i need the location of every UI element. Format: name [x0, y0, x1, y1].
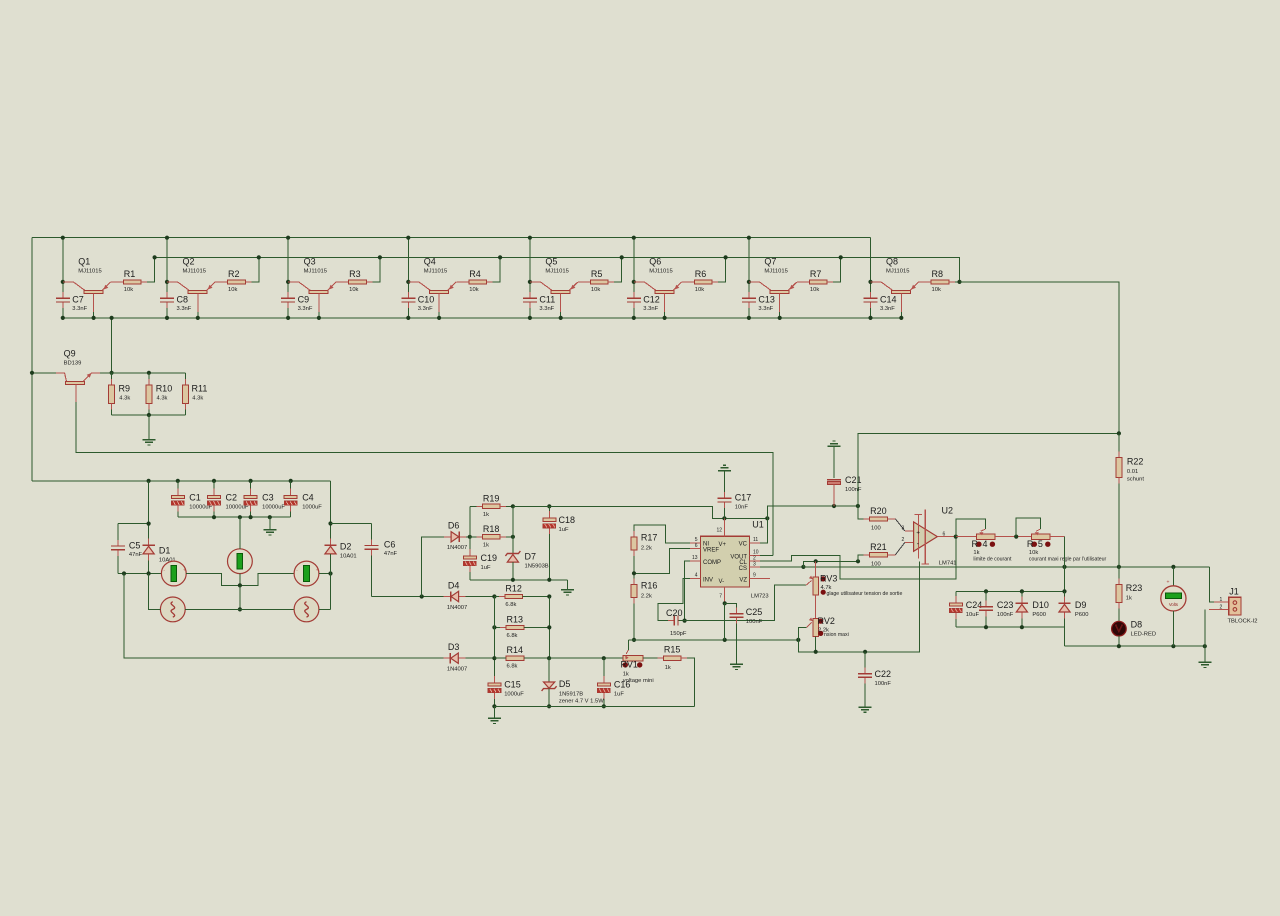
- svg-text:47nF: 47nF: [384, 551, 398, 557]
- svg-text:P600: P600: [1032, 612, 1046, 618]
- svg-text:1uF: 1uF: [614, 691, 624, 697]
- diode D4: [459, 596, 495, 598]
- resistor R10: [148, 379, 150, 385]
- transistor Q6: [634, 281, 645, 283]
- capacitor C13: [748, 292, 750, 298]
- wire INV loop: [658, 579, 690, 621]
- svg-text:C9: C9: [298, 295, 310, 305]
- svg-text:12: 12: [716, 528, 722, 534]
- svg-text:10k: 10k: [695, 287, 704, 293]
- pin 2 CL: [750, 560, 761, 562]
- svg-text:6.8k: 6.8k: [505, 602, 516, 608]
- resistor R2: [222, 281, 228, 283]
- wire stage node 3 vertical: [287, 238, 289, 297]
- svg-text:3.3nF: 3.3nF: [298, 306, 313, 312]
- pin 10 VOUT: [750, 554, 761, 556]
- zener diode D7: [512, 506, 514, 553]
- svg-text:6.8k: 6.8k: [507, 664, 518, 670]
- wire R12-R14 right vertical: [548, 597, 550, 659]
- svg-text:MJ11015: MJ11015: [304, 268, 327, 274]
- wire T2 right to D2 node: [319, 608, 331, 610]
- svg-text:voltage mini: voltage mini: [623, 678, 654, 684]
- svg-text:C10: C10: [418, 295, 435, 305]
- transistor Q2: [167, 281, 178, 283]
- svg-text:R8: R8: [932, 269, 944, 279]
- svg-text:C17: C17: [735, 492, 752, 502]
- svg-text:C4: C4: [302, 493, 314, 503]
- svg-text:10k: 10k: [810, 287, 819, 293]
- resistor R20: [864, 518, 870, 520]
- resistor R7: [803, 281, 809, 283]
- ground below R10: [142, 439, 155, 441]
- svg-text:10uF: 10uF: [966, 612, 980, 618]
- potentiometer RV4: [976, 534, 995, 540]
- wire stage node 7 vertical: [748, 238, 750, 297]
- transistor Q8: [871, 281, 882, 283]
- resistor R21: [864, 554, 870, 556]
- svg-text:R13: R13: [507, 614, 524, 624]
- capacitor C4: [290, 481, 292, 496]
- wire V+ node to C21 node: [767, 506, 858, 518]
- capacitor C20: [668, 620, 674, 622]
- resistor R11: [184, 379, 186, 385]
- svg-text:nsion maxi: nsion maxi: [824, 632, 849, 638]
- svg-text:zener 4.7 V 1.5W: zener 4.7 V 1.5W: [559, 699, 604, 705]
- resistor R12: [494, 596, 505, 598]
- svg-text:3.3nF: 3.3nF: [177, 306, 192, 312]
- svg-text:R17: R17: [641, 532, 658, 542]
- resistor R5: [584, 281, 590, 283]
- wire RV4 to RV5: [995, 536, 1032, 538]
- capacitor C19: [469, 537, 471, 556]
- wire stage node 2 vertical: [166, 238, 168, 297]
- svg-text:MJ11015: MJ11015: [649, 268, 672, 274]
- svg-text:2.2k: 2.2k: [641, 593, 652, 599]
- wire base drive bus: [155, 257, 960, 282]
- svg-text:1N5903B: 1N5903B: [525, 563, 549, 569]
- svg-text:Q3: Q3: [304, 256, 316, 266]
- svg-text:C12: C12: [643, 295, 660, 305]
- wire Q9 base feed: [32, 372, 56, 374]
- svg-text:VREF: VREF: [703, 548, 719, 554]
- svg-text:limite de courant: limite de courant: [973, 557, 1012, 563]
- svg-text:1uF: 1uF: [481, 565, 491, 571]
- wire M3 to D2 node: [319, 573, 331, 575]
- ground below C25: [730, 663, 743, 665]
- wire C20 to RV3 wiper: [678, 585, 806, 620]
- diode D1: [148, 481, 150, 545]
- wire T1 left to main node: [149, 574, 161, 610]
- svg-text:R3: R3: [349, 269, 361, 279]
- AC voltmeter M2: [228, 549, 253, 574]
- pin 11 VC: [750, 542, 761, 544]
- pin 3 CS: [750, 566, 761, 568]
- wire ground stub: [493, 706, 495, 717]
- resistor R23: [1118, 567, 1120, 585]
- svg-text:Q5: Q5: [545, 256, 557, 266]
- wire M2 top to filter bus: [239, 517, 241, 549]
- svg-text:C13: C13: [758, 295, 775, 305]
- svg-text:C23: C23: [997, 600, 1014, 610]
- wire stage node 1 vertical: [62, 238, 64, 297]
- svg-text:courant maxi regle par l'utili: courant maxi regle par l'utilisateur: [1029, 557, 1107, 563]
- svg-text:LM723: LM723: [751, 593, 769, 599]
- wire M1 to M3 via M2 bottom: [186, 574, 294, 586]
- resistor R6: [688, 281, 694, 283]
- transistor Q4: [408, 281, 419, 283]
- op-amp U1 LM723 body: [701, 536, 750, 587]
- wire CL to op-amp output: [760, 537, 956, 579]
- svg-text:R7: R7: [810, 269, 822, 279]
- svg-text:4: 4: [983, 539, 988, 549]
- resistor R15: [643, 657, 664, 659]
- svg-text:3.3nF: 3.3nF: [880, 306, 895, 312]
- wire RV2 bottom rail: [815, 636, 817, 652]
- svg-text:V-: V-: [719, 579, 725, 585]
- svg-text:R1: R1: [124, 269, 136, 279]
- svg-text:RV3: RV3: [820, 574, 837, 584]
- wire top supply rail: [32, 237, 871, 239]
- svg-text:C20: C20: [666, 608, 683, 618]
- svg-text:VZ: VZ: [739, 578, 747, 584]
- wire output bottom rail: [1065, 645, 1205, 647]
- capacitor C16: [603, 658, 605, 683]
- resistor R19: [470, 505, 483, 507]
- svg-text:4: 4: [695, 573, 698, 579]
- svg-text:R2: R2: [228, 269, 240, 279]
- ground below C15: [488, 717, 501, 719]
- wire R9-R11 bottom bus: [111, 404, 113, 415]
- svg-text:R9: R9: [119, 383, 131, 393]
- svg-text:LM741: LM741: [939, 560, 957, 566]
- svg-text:Q9: Q9: [64, 349, 76, 359]
- transistor Q1: [63, 281, 74, 283]
- svg-text:1uF: 1uF: [559, 527, 569, 533]
- svg-text:C14: C14: [880, 295, 897, 305]
- svg-text:100nF: 100nF: [746, 619, 763, 625]
- svg-text:0.01: 0.01: [1127, 469, 1138, 475]
- svg-text:U1: U1: [752, 520, 764, 530]
- svg-text:1000uF: 1000uF: [504, 691, 524, 697]
- potentiometer RV5: [1032, 534, 1051, 540]
- wire transistor-row bottom rail: [63, 317, 901, 319]
- wire R14 to RV1: [549, 657, 623, 659]
- svg-text:R18: R18: [483, 524, 500, 534]
- capacitor C25: [725, 603, 737, 611]
- svg-text:R: R: [1027, 539, 1034, 549]
- svg-text:D4: D4: [448, 580, 460, 590]
- svg-text:10k: 10k: [469, 287, 478, 293]
- svg-text:3.3nF: 3.3nF: [72, 306, 87, 312]
- svg-text:D1: D1: [159, 546, 171, 556]
- svg-text:C7: C7: [72, 295, 84, 305]
- svg-text:R5: R5: [591, 269, 603, 279]
- svg-text:VC: VC: [739, 542, 748, 548]
- wire reference line to LM723: [513, 506, 767, 518]
- resistor R9: [111, 379, 113, 385]
- ground below C22: [859, 706, 872, 708]
- svg-text:5: 5: [695, 537, 698, 543]
- svg-text:1000uF: 1000uF: [302, 505, 322, 511]
- svg-text:TBLOCK-I2: TBLOCK-I2: [1228, 619, 1258, 625]
- svg-text:3: 3: [902, 526, 905, 532]
- svg-text:D2: D2: [340, 542, 352, 552]
- svg-text:4.3k: 4.3k: [119, 395, 130, 401]
- wire U2 output: [937, 536, 956, 538]
- svg-text:+: +: [316, 568, 319, 573]
- wire R7 riser to base bus: [827, 257, 841, 282]
- svg-text:R21: R21: [870, 542, 887, 552]
- wire VC riser: [760, 518, 767, 543]
- svg-text:100nF: 100nF: [845, 487, 862, 493]
- svg-text:R22: R22: [1127, 457, 1144, 467]
- svg-text:3: 3: [753, 562, 756, 568]
- svg-text:MJ11015: MJ11015: [183, 268, 206, 274]
- capacitor C23: [985, 591, 987, 604]
- capacitor C7: [62, 292, 64, 298]
- svg-text:C11: C11: [539, 295, 555, 305]
- svg-text:R12: R12: [505, 584, 522, 594]
- svg-text:C24: C24: [966, 600, 983, 610]
- wire R9-R11 top bus: [100, 372, 185, 374]
- wire current sense line: [858, 433, 1119, 519]
- wire R8 output to sense line: [949, 281, 960, 283]
- transistor Q5: [530, 281, 541, 283]
- diode D6: [459, 536, 470, 538]
- svg-text:10k: 10k: [349, 287, 358, 293]
- pin 5 NI: [690, 542, 701, 544]
- svg-text:MJ11015: MJ11015: [78, 268, 101, 274]
- wire Q9 collector to VOUT rail: [76, 402, 773, 555]
- svg-text:C8: C8: [177, 295, 189, 305]
- svg-text:1k: 1k: [665, 665, 671, 671]
- wire R1 riser to base bus: [141, 257, 155, 282]
- diode D9: [1064, 591, 1066, 603]
- capacitor C14: [870, 292, 872, 298]
- svg-text:J1: J1: [1229, 587, 1239, 597]
- wire R2 riser to base bus: [245, 257, 258, 282]
- svg-text:V+: V+: [719, 542, 727, 548]
- wire left vertical rail: [31, 238, 33, 481]
- svg-text:RV2: RV2: [818, 616, 835, 626]
- capacitor C10: [407, 292, 409, 298]
- svg-text:R14: R14: [507, 645, 524, 655]
- svg-text:10k: 10k: [228, 287, 237, 293]
- svg-text:C2: C2: [226, 493, 238, 503]
- wire R12 left vertical to C15: [493, 597, 495, 683]
- svg-text:10000uF: 10000uF: [262, 505, 285, 511]
- svg-text:Q7: Q7: [764, 256, 776, 266]
- ground below C18 bus: [561, 589, 574, 591]
- wire CS line: [760, 566, 803, 568]
- svg-text:COMP: COMP: [703, 560, 721, 566]
- capacitor C5: [117, 524, 119, 544]
- svg-text:D7: D7: [525, 551, 537, 561]
- wire D7/C18/C19 ground bus: [470, 579, 568, 581]
- svg-text:D10: D10: [1032, 600, 1049, 610]
- potentiometer RV3: [815, 561, 817, 577]
- svg-text:C18: C18: [559, 515, 576, 525]
- svg-text:2: 2: [902, 537, 905, 543]
- zener diode D5: [548, 658, 550, 682]
- svg-text:Q1: Q1: [78, 256, 90, 266]
- resistor R22 shunt: [1118, 433, 1120, 457]
- wire T1 to T2: [185, 608, 294, 610]
- transistor Q3: [288, 281, 299, 283]
- svg-text:3.3nF: 3.3nF: [758, 306, 773, 312]
- svg-text:47nF: 47nF: [129, 552, 143, 558]
- capacitor C21: [828, 445, 841, 447]
- wire stage node 6 vertical: [633, 238, 635, 297]
- svg-text:MJ11015: MJ11015: [886, 268, 909, 274]
- LED D8: [1112, 621, 1127, 636]
- wire bank bottom bus: [956, 626, 1065, 628]
- wire R4 riser to base bus: [487, 257, 501, 282]
- svg-text:10A01: 10A01: [340, 554, 357, 560]
- svg-text:RV1: RV1: [621, 660, 638, 670]
- resistor R18: [470, 536, 483, 538]
- svg-text:+: +: [916, 529, 920, 536]
- svg-text:5: 5: [1038, 539, 1043, 549]
- svg-text:D3: D3: [448, 642, 460, 652]
- svg-text:10k: 10k: [932, 287, 941, 293]
- wire R3 riser to base bus: [366, 257, 380, 282]
- svg-text:MJ11015: MJ11015: [424, 268, 447, 274]
- capacitor C18: [547, 504, 551, 508]
- svg-text:C3: C3: [262, 493, 274, 503]
- svg-text:D5: D5: [559, 679, 571, 689]
- capacitor C3: [250, 481, 252, 496]
- svg-text:1k: 1k: [1126, 596, 1132, 602]
- svg-text:glage utilisateur tension de s: glage utilisateur tension de sortie: [827, 591, 903, 597]
- svg-text:Q8: Q8: [886, 256, 898, 266]
- capacitor C2: [213, 481, 215, 496]
- svg-text:C15: C15: [504, 679, 521, 689]
- svg-text:1k: 1k: [483, 542, 489, 548]
- svg-text:R20: R20: [870, 506, 887, 516]
- AC voltmeter M1: [161, 561, 186, 586]
- svg-text:100: 100: [871, 525, 881, 531]
- resistor R17: [633, 531, 635, 537]
- resistor R16: [633, 579, 635, 585]
- svg-text:R: R: [972, 539, 979, 549]
- svg-text:P600: P600: [1075, 612, 1089, 618]
- resistor R14: [500, 657, 506, 659]
- wire RV5 right to CS line: [1050, 536, 1064, 538]
- wire stage node 4 vertical: [407, 238, 409, 297]
- pin 13 COMP: [690, 560, 701, 562]
- svg-text:D8: D8: [1131, 619, 1143, 629]
- wire R16 bottom bus: [633, 598, 635, 640]
- op-amp U2 LM741: [905, 530, 914, 532]
- capacitor C11: [529, 292, 531, 298]
- resistor R3: [343, 281, 349, 283]
- svg-text:2.2k: 2.2k: [641, 545, 652, 551]
- svg-text:1k: 1k: [623, 672, 629, 678]
- wire R21 riser: [858, 555, 870, 562]
- wire NI network: [634, 525, 690, 543]
- svg-text:CS: CS: [739, 566, 747, 572]
- wire DC bus from left rail: [32, 480, 331, 482]
- wire R6 riser to base bus: [712, 257, 726, 282]
- potentiometer RV1: [623, 655, 643, 661]
- AC voltmeter M3: [294, 561, 319, 586]
- wire CS long line to output stage: [803, 566, 1209, 568]
- wire J1 pin2 to ground: [1204, 610, 1206, 662]
- svg-text:100nF: 100nF: [997, 612, 1014, 618]
- svg-text:MJ11015: MJ11015: [764, 268, 787, 274]
- connector J1 TBLOCK-I2: [1214, 601, 1229, 603]
- svg-text:R10: R10: [156, 383, 173, 393]
- wire filter bottom bus: [178, 516, 291, 518]
- svg-text:11: 11: [753, 537, 758, 543]
- potentiometer RV2: [813, 619, 819, 637]
- svg-text:C6: C6: [384, 540, 396, 550]
- svg-text:C19: C19: [481, 553, 498, 563]
- capacitor C6: [331, 523, 372, 525]
- resistor R1: [117, 281, 123, 283]
- svg-text:3.3nF: 3.3nF: [539, 306, 554, 312]
- svg-text:D9: D9: [1075, 600, 1087, 610]
- svg-text:R16: R16: [641, 580, 658, 590]
- resistor R13: [494, 626, 506, 628]
- wire R15 to ground bus: [681, 658, 695, 706]
- svg-text:Q2: Q2: [183, 256, 195, 266]
- wire R5 riser to base bus: [608, 257, 622, 282]
- wire bottom rail to base row: [111, 318, 113, 373]
- svg-text:1N4007: 1N4007: [447, 667, 467, 673]
- wire J1 pin1 feed: [1210, 567, 1223, 602]
- resistor R8: [925, 281, 931, 283]
- svg-text:6.8k: 6.8k: [507, 633, 518, 639]
- svg-text:2: 2: [1220, 605, 1223, 611]
- resistor R4: [463, 281, 469, 283]
- svg-text:D6: D6: [448, 521, 460, 531]
- svg-text:6: 6: [695, 543, 698, 549]
- alternator T1: [160, 597, 185, 622]
- svg-text:1N4007: 1N4007: [447, 605, 467, 611]
- svg-text:100: 100: [871, 561, 881, 567]
- svg-text:1N5917B: 1N5917B: [559, 692, 583, 698]
- svg-text:U2: U2: [942, 505, 954, 515]
- capacitor C1: [177, 481, 179, 496]
- pin 12 V+: [723, 518, 725, 536]
- wire bank to output return: [1064, 627, 1066, 646]
- svg-text:100nF: 100nF: [875, 681, 892, 687]
- capacitor C24: [955, 591, 957, 602]
- svg-text:schunt: schunt: [1127, 477, 1144, 483]
- alternator T2: [294, 597, 319, 622]
- svg-text:LED-RED: LED-RED: [1131, 631, 1156, 637]
- svg-text:R15: R15: [664, 644, 681, 654]
- capacitor C9: [287, 292, 289, 298]
- svg-text:9: 9: [753, 573, 756, 579]
- ground at output: [1198, 661, 1211, 663]
- diode D10: [1021, 591, 1023, 603]
- svg-text:13: 13: [692, 555, 698, 561]
- svg-text:R19: R19: [483, 493, 500, 503]
- wire C5 branch: [118, 523, 149, 525]
- svg-text:7: 7: [719, 593, 722, 599]
- transistor Q7: [749, 281, 760, 283]
- wire VOUT riser: [760, 554, 773, 556]
- svg-text:INV: INV: [703, 578, 713, 584]
- wire C15/D5/C16 ground bus: [494, 705, 694, 707]
- svg-text:R4: R4: [469, 269, 481, 279]
- wire ground stub: [148, 415, 150, 439]
- transistor Q9: [56, 372, 65, 374]
- svg-text:10nF: 10nF: [735, 504, 749, 510]
